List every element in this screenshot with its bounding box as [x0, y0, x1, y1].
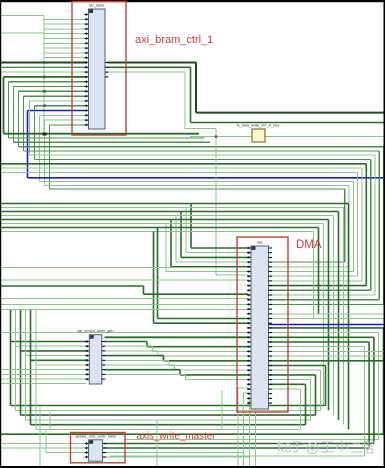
- svg-text:tdc_table: tdc_table: [89, 4, 104, 8]
- svg-text:axis_write_master: axis_write_master: [137, 431, 217, 442]
- svg-text:axi_mm2s_tuser_gen: axi_mm2s_tuser_gen: [77, 329, 113, 333]
- svg-text:DMA: DMA: [296, 239, 322, 251]
- svg-text:dac: dac: [257, 241, 263, 245]
- svg-text:axi_bram_ctrl_1: axi_bram_ctrl_1: [135, 34, 213, 46]
- svg-text:tx_data_write_ctrl_in_key: tx_data_write_ctrl_in_key: [237, 124, 280, 128]
- svg-text:update_axis_parts_table: update_axis_parts_table: [75, 434, 116, 438]
